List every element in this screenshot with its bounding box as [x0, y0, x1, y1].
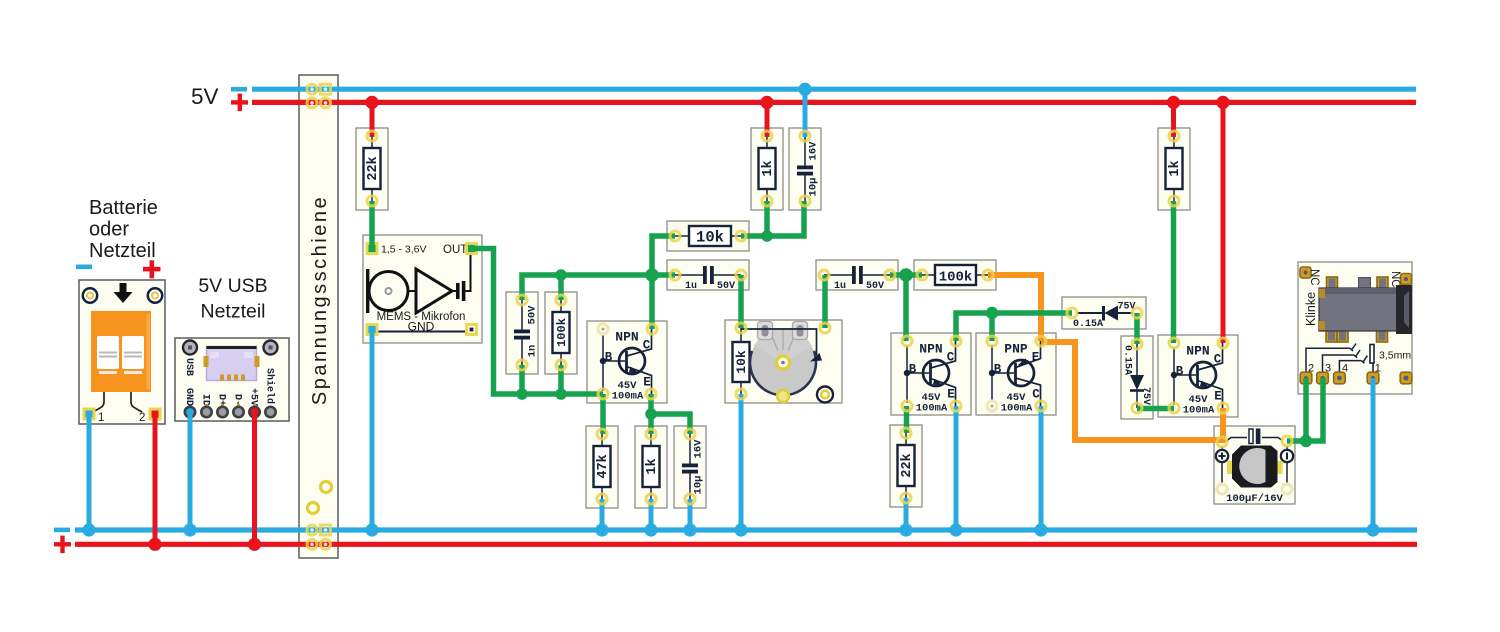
node junction Q1 collector net — [645, 268, 659, 282]
resistor 1k (right, R8) — [1158, 128, 1190, 210]
svg-text:10k: 10k — [696, 229, 724, 247]
arrow down — [120, 283, 127, 293]
center pad — [777, 356, 790, 369]
pads resistor 1k2 — [762, 131, 772, 141]
pad jack pin2 — [1300, 372, 1312, 384]
pads poti — [736, 323, 746, 333]
node junction GND R 1k4 — [644, 523, 657, 536]
svg-text:1: 1 — [98, 412, 104, 424]
ears — [758, 322, 773, 340]
svg-text:E: E — [947, 388, 955, 402]
svg-text:B: B — [994, 363, 1002, 377]
wire red 5V+ to R 22k top — [370, 102, 375, 137]
svg-text:1n: 1n — [527, 345, 539, 358]
USB power module — [175, 338, 289, 421]
pads unused bottom — [1217, 484, 1227, 494]
pads capacitor 10u2 — [800, 131, 810, 141]
minus sign bottom — [54, 528, 70, 533]
svg-text:E: E — [1032, 351, 1040, 365]
resistor 1k (top, R5) — [751, 128, 783, 210]
pin +5V — [249, 407, 259, 417]
svg-text:GND: GND — [408, 320, 435, 334]
lead pin1 — [93, 392, 104, 412]
transistor Q2 NPN — [891, 333, 971, 415]
svg-text:+5V: +5V — [248, 388, 259, 406]
transistor Q4 PNP — [976, 333, 1056, 415]
wire green MEMS OUT to Q1 base — [472, 249, 603, 395]
pads transistor Q4 — [987, 336, 997, 346]
svg-text:1k: 1k — [761, 160, 776, 176]
pads resistor 10k1 — [670, 231, 680, 241]
svg-text:B: B — [909, 363, 917, 377]
plus sign battery — [143, 267, 161, 272]
svg-text:1k: 1k — [645, 458, 660, 474]
resistor 100k (R6) — [914, 260, 996, 290]
svg-text:Klinke: Klinke — [1304, 292, 1318, 326]
pin D- — [233, 407, 243, 417]
minus sign battery — [76, 265, 92, 270]
plus marker — [1216, 450, 1228, 462]
node junction GND USB — [183, 523, 196, 536]
pad jack pin3 — [1317, 372, 1329, 384]
svg-text:0.15A: 0.15A — [1073, 319, 1103, 330]
wire green C 1u2 right to R 100k3 — [890, 272, 922, 278]
svg-text:E: E — [1214, 390, 1222, 404]
node junction 5V+ at Q3 collector — [1216, 96, 1229, 109]
potentiometer 10k — [725, 320, 842, 403]
svg-text:22k: 22k — [900, 453, 915, 477]
wire green Q1 emitter to R 1k4 — [648, 394, 654, 434]
USB connector — [207, 347, 257, 381]
wire green Q1 emitter branch to C 10u3 — [651, 414, 690, 434]
pads transistor Q2 — [902, 336, 912, 346]
screw right — [148, 288, 162, 302]
node junction + rail battery — [148, 538, 161, 551]
pads on voltage strip — [307, 84, 332, 549]
wire green C 1u1 right to poti top — [738, 275, 744, 328]
svg-text:50V: 50V — [717, 281, 735, 292]
transistor Q3 NPN — [1158, 335, 1238, 417]
wire blue R 1k4 to GND rail — [649, 499, 654, 530]
svg-text:10k: 10k — [734, 350, 749, 374]
gold ticks — [205, 404, 208, 408]
node junction GND R 47k — [595, 523, 608, 536]
wire green Q2 base low to R 22k3 — [904, 406, 910, 433]
node junction signal at C1 1n — [516, 388, 528, 400]
svg-text:NPN: NPN — [615, 330, 638, 345]
jack body — [1319, 288, 1400, 331]
svg-text:100mA: 100mA — [612, 391, 644, 403]
plus sign top — [231, 100, 248, 104]
pad MEMS GND left — [367, 325, 377, 335]
wire green R 1k3 to Q3 base top — [1171, 201, 1177, 343]
svg-text:1u: 1u — [834, 281, 846, 292]
bottom center pad — [777, 390, 789, 402]
node junction 5V+ at R8 1k — [1167, 96, 1180, 109]
minus marker — [1281, 450, 1293, 462]
wire 5V- top rail — [252, 87, 1416, 92]
poti resistor — [740, 328, 742, 342]
resistor 47k — [586, 426, 618, 508]
screw left — [183, 341, 197, 355]
wire 5V+ top rail — [252, 100, 1416, 105]
pads resistor 22k1 — [367, 131, 377, 141]
svg-text:NC: NC — [1308, 269, 1320, 286]
lead pin2 — [131, 392, 142, 412]
node junction feedback at R2 top — [555, 269, 567, 281]
amp triangle — [416, 269, 452, 313]
svg-text:1,5 - 3,6V: 1,5 - 3,6V — [381, 244, 427, 256]
svg-text:B: B — [605, 351, 613, 365]
jack body gold tabs top — [1327, 277, 1338, 290]
minus sign top — [231, 87, 247, 92]
wire green D1 cathode to D2 top — [1134, 313, 1140, 344]
pad MEMS OUT — [467, 244, 477, 254]
jack body gold tabs bottom — [1326, 329, 1337, 342]
pads resistor 1k3 — [1169, 131, 1179, 141]
capacitor 1u 50V (C5) — [816, 260, 898, 292]
wire blue R 47k to GND rail — [600, 499, 605, 530]
wire green R 100k2 top tap — [558, 275, 564, 300]
wire green R 10k1 left to Q1 collector — [652, 236, 675, 329]
node junction GND Q4 collector — [1034, 523, 1047, 536]
wire orange Q3 emitter to C 100u plus — [1220, 408, 1226, 443]
screw right — [264, 341, 278, 355]
pads capacitor 1u1 — [670, 270, 680, 280]
orange terminal body — [91, 311, 151, 392]
capacitor 10u 16V (C3) — [674, 426, 706, 508]
pads diode D2 — [1132, 339, 1142, 349]
svg-text:50V: 50V — [527, 305, 539, 325]
capacitor 10u 16V (top, C4) — [789, 128, 821, 210]
pads resistor 47k — [597, 429, 607, 439]
wire blue USB GND to GND rail — [188, 412, 193, 530]
svg-text:PNP: PNP — [1004, 342, 1028, 357]
svg-text:oder: oder — [89, 219, 129, 241]
wire green Q2 collector to D1 anode — [956, 313, 1072, 341]
node junction + rail USB — [248, 538, 261, 551]
svg-text:E: E — [643, 376, 651, 390]
pads resistor 1k4 — [646, 429, 656, 439]
node junction Q2 base net — [899, 268, 913, 282]
svg-text:100k: 100k — [555, 318, 569, 347]
node junction signal at R2 100k — [555, 388, 567, 400]
pad MEMS GND right — [467, 325, 477, 335]
svg-text:Netzteil: Netzteil — [200, 301, 265, 323]
wire red 5V+ to R 1k3 top — [1171, 102, 1176, 137]
pads capacitor 10u3 — [685, 429, 695, 439]
coupling cap — [452, 290, 456, 292]
node junction 5V- at C4 10u — [798, 83, 811, 96]
svg-text:1k: 1k — [1168, 160, 1183, 176]
capacitor 1u 50V (C2) — [667, 260, 749, 292]
resistor 1k (R4) — [635, 426, 667, 508]
pad MEMS supply — [367, 244, 377, 254]
svg-text:1u: 1u — [685, 281, 697, 292]
pads transistor Q3 — [1169, 338, 1179, 348]
pad jack unused — [1400, 372, 1412, 384]
terminal window 2 — [122, 336, 144, 369]
wire GND- bottom rail — [75, 527, 1417, 532]
svg-text:Spannungsschiene: Spannungsschiene — [309, 195, 331, 405]
svg-text:100k: 100k — [939, 270, 973, 286]
pin GND — [185, 407, 195, 417]
wire green signal bus upper — [522, 275, 675, 300]
node junction 5V+ at R5 1k — [760, 96, 773, 109]
screw left — [83, 288, 97, 302]
svg-text:2: 2 — [139, 412, 145, 424]
wire green R 100k2 bottom tap — [558, 365, 564, 394]
pads transistor Q1 — [598, 324, 608, 334]
wire green R 1k2 bottom tap — [764, 201, 770, 236]
svg-text:C: C — [643, 339, 651, 353]
svg-text:GND: GND — [183, 388, 194, 406]
jack Klinke 3.5mm module — [1298, 262, 1412, 394]
svg-text:NPN: NPN — [1186, 344, 1209, 359]
diode D2 0.15A 75V vertical — [1121, 336, 1153, 419]
pad jack pin4 — [1334, 372, 1346, 384]
wire red USB +5V to + rail — [252, 412, 257, 544]
node junction GND battery — [82, 523, 95, 536]
pin Shield — [265, 407, 275, 417]
svg-text:Batterie: Batterie — [89, 197, 158, 219]
pads capacitor 1n — [517, 295, 527, 305]
pads capacitor 1u2 — [819, 270, 829, 280]
svg-text:5V: 5V — [191, 84, 219, 109]
svg-text:10µ: 10µ — [693, 476, 705, 495]
node junction GND C 10u3 — [683, 523, 696, 536]
pads resistor 22k3 — [901, 428, 911, 438]
svg-text:C: C — [1032, 388, 1040, 402]
wire green poti wiper to C 1u2 left — [822, 275, 828, 328]
wire blue 5V- to C 10u2 top — [803, 89, 808, 137]
pads capacitor C6 — [1217, 437, 1227, 447]
MEMS microphone module U1 — [363, 235, 482, 343]
svg-text:C: C — [947, 351, 955, 365]
wire + bottom rail — [75, 542, 1417, 547]
wire blue R 22k3 to GND rail — [904, 498, 909, 530]
node junction GND poti — [734, 523, 747, 536]
node junction GND MEMS — [365, 523, 378, 536]
resistor 22k (top left) — [356, 128, 388, 210]
battery terminal block module — [79, 280, 165, 424]
svg-text:100µF/16V: 100µF/16V — [1226, 493, 1283, 505]
pads diode D1 — [1067, 308, 1077, 318]
capacitor 1n 50V — [506, 292, 539, 374]
wire red 5V+ to Q3 collector — [1221, 102, 1226, 343]
pin ID — [201, 407, 211, 417]
pad battery pin2 — [150, 409, 160, 419]
node junction GND jack pin1 — [1366, 523, 1379, 536]
svg-text:NPN: NPN — [919, 342, 942, 357]
pin D+ — [217, 407, 227, 417]
svg-text:B: B — [1176, 365, 1184, 379]
resistor 10k (R3) — [667, 221, 749, 251]
svg-text:OUT: OUT — [443, 244, 467, 256]
svg-text:16V: 16V — [808, 141, 820, 161]
node junction Q4 base net — [986, 307, 998, 319]
node junction output to jack — [1300, 435, 1312, 447]
wire orange R 100k3 to Q4 emitter — [988, 275, 1041, 341]
pad NC left — [1300, 267, 1311, 278]
wire blue Q4 collector to GND rail — [1039, 406, 1044, 530]
wire green C 100u minus to jack pins — [1287, 378, 1323, 441]
svg-text:22k: 22k — [366, 156, 381, 180]
svg-text:5V USB: 5V USB — [198, 275, 267, 297]
wire green D2 bottom to Q3 base low — [1137, 406, 1174, 412]
wire green jack pin2 drop — [1303, 378, 1309, 441]
plus sign bottom — [54, 542, 71, 546]
svg-text:47k: 47k — [596, 454, 611, 478]
svg-text:10µ: 10µ — [808, 178, 820, 197]
resistor 100k (R2) — [545, 292, 577, 374]
terminal window 1 — [97, 336, 119, 369]
wire blue C 10u3 to GND rail — [688, 499, 693, 530]
svg-text:C: C — [1214, 353, 1222, 367]
bottom right pad — [817, 387, 833, 403]
node junction Q1 emitter branch — [645, 408, 657, 420]
svg-text:50V: 50V — [866, 281, 884, 292]
wire blue jack pin1 to GND rail — [1371, 378, 1376, 530]
wire green C 1n bottom tap — [519, 365, 525, 394]
pad battery pin1 — [84, 409, 94, 419]
wire orange Q4 emitter to C 100u plus — [1041, 342, 1221, 440]
wire green R 10k1 right to C 10u2 bottom — [741, 201, 804, 236]
node junction GND Q2 emitter — [949, 523, 962, 536]
resistor 22k (R7) — [890, 425, 922, 507]
svg-text:100mA: 100mA — [1001, 403, 1033, 415]
pads resistor 100k2 — [556, 295, 566, 305]
wire blue poti to GND rail — [739, 394, 744, 530]
wire green Q1 base to R 47k — [600, 394, 606, 434]
wire green tap to Q4 base — [989, 313, 995, 341]
svg-text:3,5mm: 3,5mm — [1379, 350, 1411, 362]
wire green R 22k1 to MEMS supply — [369, 201, 375, 249]
svg-text:0.15A: 0.15A — [1122, 345, 1133, 375]
node junction R5 bottom net — [761, 230, 773, 242]
pads resistor 100k3 — [917, 270, 927, 280]
cap body — [1232, 446, 1278, 488]
wire blue MEMS GND to GND rail — [370, 330, 375, 530]
svg-text:Netzteil: Netzteil — [89, 240, 156, 262]
svg-text:100mA: 100mA — [1183, 405, 1215, 417]
wire green tap to Q2 base — [903, 275, 909, 341]
wire blue battery pin1 to GND rail — [87, 413, 92, 530]
node junction GND R 22k3 — [899, 523, 912, 536]
wire red 5V+ to R 1k2 top — [765, 102, 770, 137]
svg-text:16V: 16V — [693, 439, 705, 459]
svg-text:100mA: 100mA — [916, 403, 948, 415]
transistor Q1 NPN — [587, 321, 667, 403]
mic symbol — [366, 269, 369, 313]
Spannungsschiene voltage-rail strip — [299, 75, 338, 558]
wire red battery pin2 to + rail — [153, 413, 158, 544]
knob — [750, 330, 816, 396]
svg-text:USB: USB — [183, 358, 194, 376]
wiper — [741, 329, 817, 355]
diode D1 0.15A 75V horizontal — [1062, 297, 1146, 330]
wire blue Q2 emitter to GND rail — [954, 406, 959, 530]
svg-text:75V: 75V — [1140, 387, 1151, 405]
svg-text:Shield: Shield — [264, 368, 276, 404]
capacitor C6 100uF/16V electrolytic — [1214, 426, 1295, 505]
node junction 5V+ at R1 22k — [365, 96, 378, 109]
pad NC right — [1401, 274, 1412, 285]
pad jack pin1 — [1367, 372, 1379, 384]
